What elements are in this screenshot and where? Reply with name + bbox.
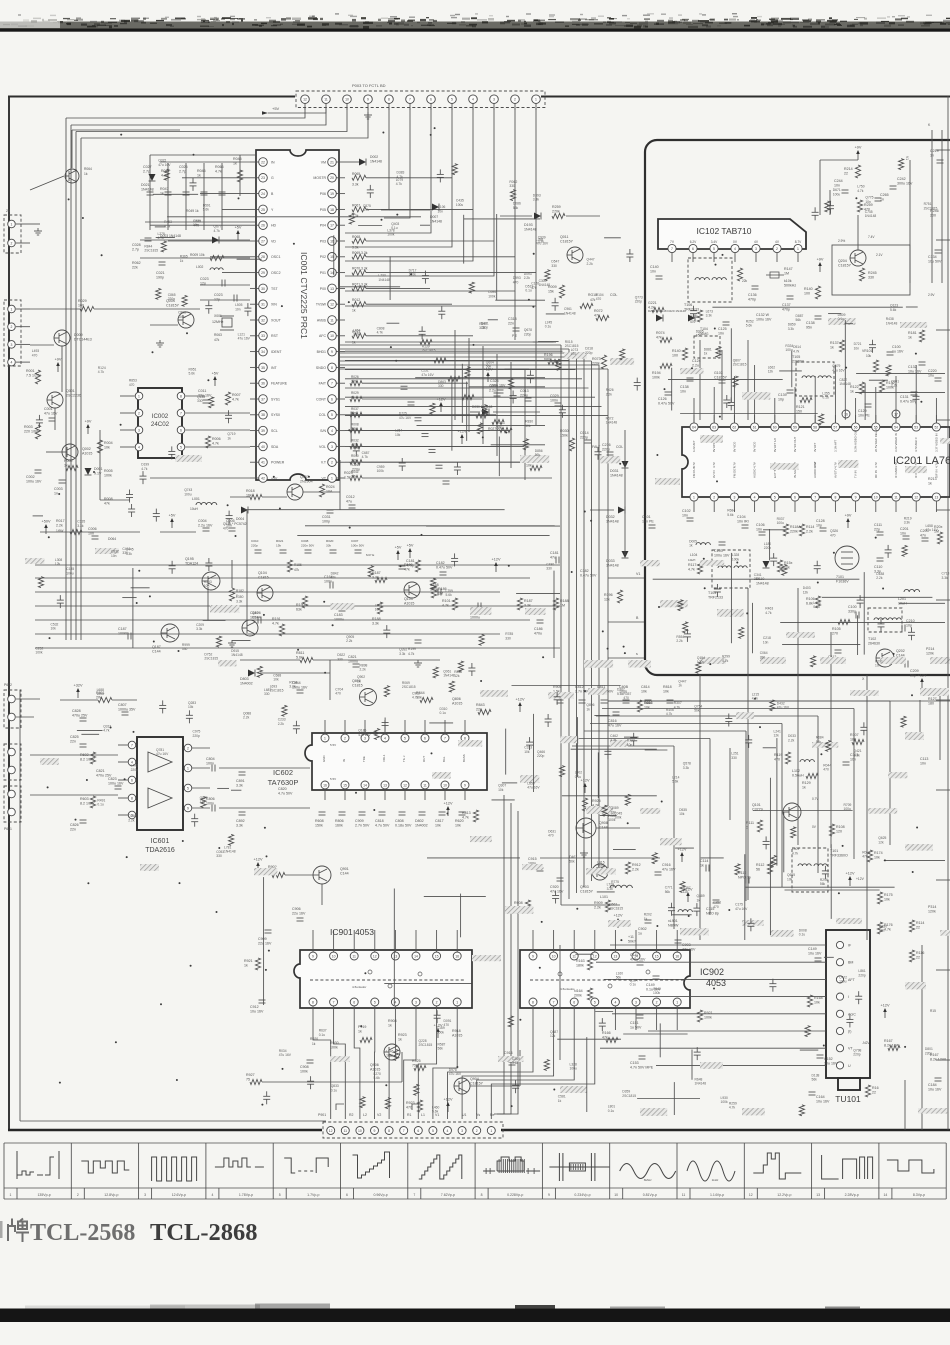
svg-text:C18?: C18? [250,611,259,615]
svg-text:+32V: +32V [74,684,83,688]
svg-text:2.2u 16V: 2.2u 16V [198,524,213,528]
svg-text:220p: 220p [764,546,772,550]
svg-text:7.5 1/2W: 7.5 1/2W [26,374,41,378]
svg-text:470: 470 [596,297,602,301]
svg-text:C906: C906 [292,907,301,911]
svg-text:R163: R163 [576,959,585,963]
svg-text:C139: C139 [778,393,787,397]
svg-text:Q195: Q195 [185,557,194,561]
svg-text:22k: 22k [351,475,357,479]
svg-text:1000u: 1000u [348,660,358,664]
svg-text:10n: 10n [88,532,94,536]
svg-text:MOSTR: MOSTR [313,176,326,180]
svg-text:8: 8 [388,98,390,102]
svg-text:P003 TO FCTL BD: P003 TO FCTL BD [352,83,386,88]
svg-text:3: 3 [331,445,333,449]
svg-text:V1: V1 [905,156,909,160]
svg-text:C026: C026 [179,165,188,169]
svg-text:4: 4 [447,1129,449,1133]
svg-text:12p: 12p [214,298,220,302]
svg-text:6: 6 [424,736,426,740]
svg-text:10u 16V: 10u 16V [808,952,822,956]
svg-text:2.2k: 2.2k [353,333,360,337]
svg-text:100k: 100k [704,1016,712,1020]
svg-text:6: 6 [346,1193,348,1197]
svg-text:C825: C825 [70,735,79,739]
svg-text:4.7V: 4.7V [813,462,817,468]
svg-text:SYS1: SYS1 [271,397,280,401]
svg-text:1N4148: 1N4148 [524,228,537,232]
svg-text:470: 470 [571,352,577,356]
svg-text:+5V: +5V [272,106,280,111]
svg-text:P05: P05 [320,208,326,212]
svg-text:C1815Y: C1815Y [560,240,574,244]
svg-text:C187: C187 [118,627,127,631]
svg-text:1N4148: 1N4148 [606,421,618,425]
svg-text:12.6Vp-p: 12.6Vp-p [172,1193,186,1197]
svg-text:63k: 63k [296,608,302,612]
svg-text:10k: 10k [641,690,647,694]
svg-text:100k: 100k [721,1100,729,1104]
svg-text:3.3k: 3.3k [236,824,243,828]
svg-text:22p: 22p [874,528,880,532]
svg-text:10k: 10k [524,750,530,754]
svg-text:100: 100 [78,304,84,308]
svg-text:47u 16V: 47u 16V [279,1053,292,1057]
svg-text:4.7V: 4.7V [934,462,938,468]
svg-text:1: 1 [797,247,799,251]
svg-text:1/6W: 1/6W [56,529,63,533]
svg-text:P601: P601 [4,827,12,831]
svg-text:470: 470 [513,280,519,284]
svg-text:220p: 220p [520,394,528,398]
svg-text:VOL: VOL [319,445,326,449]
svg-text:NB9W: NB9W [668,924,679,928]
svg-text:R064: R064 [84,167,92,171]
svg-text:4: 4 [472,98,474,102]
svg-text:7: 7 [413,1193,415,1197]
svg-text:3.3k: 3.3k [706,314,713,318]
svg-text:9: 9 [464,783,466,787]
svg-text:Q204: Q204 [838,259,847,263]
svg-text:C182: C182 [436,561,445,565]
svg-text:R175: R175 [884,893,893,897]
svg-text:57: 57 [834,425,838,429]
svg-text:12k: 12k [768,370,774,374]
svg-text:2: 2 [344,736,346,740]
svg-text:1: 1 [535,98,537,102]
svg-text:C002: C002 [26,475,35,479]
svg-text:FEATURE: FEATURE [271,382,288,386]
svg-text:0.228Vp-p: 0.228Vp-p [507,1193,523,1197]
svg-text:4: 4 [331,429,333,433]
svg-text:TRF2133: TRF2133 [708,596,723,600]
svg-text:C821: C821 [96,769,105,773]
svg-text:1N4148: 1N4148 [224,850,236,854]
svg-text:R069 3.3k: R069 3.3k [352,251,368,255]
svg-text:5: 5 [451,98,453,102]
svg-text:1kHz: 1kHz [712,1178,719,1182]
svg-text:1N4148: 1N4148 [378,278,390,282]
svg-text:10p: 10p [816,524,822,528]
svg-text:C001: C001 [44,407,53,411]
svg-text:2.2k: 2.2k [606,392,613,396]
svg-text:24C02: 24C02 [151,421,170,428]
svg-text:C826: C826 [70,823,79,827]
svg-text:12: 12 [914,495,918,499]
svg-text:1: 1 [10,1193,12,1197]
svg-text:4.7k: 4.7k [442,604,449,608]
svg-text:100n: 100n [324,580,332,584]
svg-text:R259: R259 [552,205,561,209]
svg-text:330: 330 [182,647,188,651]
svg-text:11: 11 [682,1193,686,1197]
svg-text:R923: R923 [398,1033,407,1037]
svg-text:R245: R245 [868,271,877,275]
svg-text:FALT: FALT [592,445,601,449]
svg-text:10p: 10p [906,624,912,628]
svg-text:10A: 10A [326,490,333,494]
svg-text:13: 13 [935,495,939,499]
svg-text:P E: P E [512,334,517,338]
svg-text:IC002: IC002 [152,413,169,420]
svg-text:5: 5 [279,1193,281,1197]
svg-text:12: 12 [373,954,377,958]
svg-text:8: 8 [312,1000,314,1004]
svg-text:10k: 10k [526,464,532,468]
svg-text:100k: 100k [387,233,395,237]
svg-text:C220: C220 [928,369,937,373]
svg-text:0.1u: 0.1u [319,1033,326,1037]
svg-text:+9V: +9V [855,146,862,150]
svg-text:4.7V: 4.7V [732,462,736,468]
svg-text:C804: C804 [206,757,215,761]
svg-text:10k: 10k [273,678,279,682]
svg-text:R114: R114 [916,921,924,925]
svg-text:1M: 1M [560,604,565,608]
svg-text:6.2V AFT: 6.2V AFT [692,440,696,452]
svg-text:47u: 47u [346,500,352,504]
svg-text:A1015: A1015 [82,452,92,456]
svg-text:2.9%: 2.9% [838,239,845,243]
svg-text:22u 16V: 22u 16V [292,912,306,916]
svg-text:2SC2236: 2SC2236 [66,394,81,398]
svg-text:C114: C114 [700,859,708,863]
svg-text:9V VCO: 9V VCO [753,441,757,452]
svg-text:R918: R918 [452,1029,461,1033]
svg-text:10u 16V: 10u 16V [816,1100,830,1104]
svg-text:10: 10 [443,783,447,787]
svg-text:1k: 1k [233,162,237,166]
svg-text:9.2% VIDEO OUT: 9.2% VIDEO OUT [854,429,858,452]
svg-text:25: 25 [261,208,265,212]
svg-text:D802: D802 [415,819,424,823]
svg-text:R020: R020 [326,539,334,543]
svg-text:C012: C012 [346,495,355,499]
svg-text:14: 14 [414,954,418,958]
svg-text:RF IN: RF IN [874,470,878,478]
svg-text:15: 15 [343,783,347,787]
svg-text:100n 50V: 100n 50V [351,544,365,548]
svg-text:TRE: TRE [362,756,366,762]
svg-text:10k: 10k [787,877,793,881]
svg-text:7: 7 [333,1000,335,1004]
svg-text:COL: COL [616,445,623,449]
svg-text:62: 62 [733,425,737,429]
svg-text:100u: 100u [184,492,192,496]
svg-text:C131: C131 [900,395,909,399]
svg-text:D001: D001 [94,467,103,471]
svg-text:VOL1: VOL1 [382,754,386,762]
svg-text:236560: 236560 [792,360,804,364]
svg-text:C823: C823 [108,777,117,781]
svg-text:10k: 10k [455,824,461,828]
svg-text:R188: R188 [372,617,381,621]
svg-text:R921: R921 [244,959,253,963]
svg-text:2.7p: 2.7p [143,170,150,174]
svg-text:3.3k: 3.3k [352,246,359,250]
svg-text:17: 17 [330,224,334,228]
svg-text:12k: 12k [331,576,337,580]
svg-text:POWER: POWER [271,461,285,465]
svg-text:+12V: +12V [444,802,453,806]
svg-text:1N4148: 1N4148 [865,214,877,218]
svg-text:22k: 22k [742,279,748,283]
svg-text:2.2k: 2.2k [594,906,601,910]
svg-text:R1: R1 [407,1113,412,1117]
svg-text:220p: 220p [858,973,866,977]
svg-text:10n: 10n [680,390,686,394]
svg-text:Q104: Q104 [258,571,267,575]
svg-text:18: 18 [330,208,334,212]
svg-text:0.18u 50V: 0.18u 50V [395,824,412,828]
svg-text:8.2k 12V0: 8.2k 12V0 [930,1058,946,1062]
svg-text:470: 470 [713,905,719,909]
svg-text:6.8k: 6.8k [806,602,813,606]
svg-text:4-5unledor: 4-5unledor [352,985,366,989]
svg-text:D031: D031 [610,469,619,473]
svg-text:U1: U1 [462,1113,467,1117]
svg-text:0.1u: 0.1u [331,1088,338,1092]
svg-text:R068: R068 [352,235,360,239]
svg-text:IC601: IC601 [151,838,170,845]
svg-text:D803: D803 [240,677,249,681]
svg-text:R009 10k: R009 10k [190,253,205,257]
svg-text:Q908: Q908 [599,821,608,825]
svg-text:330: 330 [505,636,511,640]
svg-text:8: 8 [388,1129,390,1133]
svg-text:P919: P919 [358,1025,366,1029]
svg-text:4.7k: 4.7k [688,568,695,572]
svg-text:R2: R2 [349,1113,354,1117]
svg-text:0.1u: 0.1u [822,396,829,400]
svg-text:10: 10 [332,954,336,958]
svg-text:2.7p: 2.7p [179,170,186,174]
svg-text:D021: D021 [141,183,150,187]
svg-text:26: 26 [261,224,265,228]
svg-text:100u: 100u [570,1067,578,1071]
svg-text:C137: C137 [782,303,791,307]
svg-text:4.7k: 4.7k [765,611,772,615]
svg-text:R024: R024 [326,485,335,489]
svg-text:C151: C151 [630,1021,639,1025]
svg-text:100k: 100k [35,651,43,655]
svg-text:+5V: +5V [395,546,402,550]
svg-text:+12V: +12V [581,779,590,783]
svg-text:330: 330 [551,264,557,268]
svg-text:C820: C820 [278,787,287,791]
svg-text:11: 11 [423,783,427,787]
svg-text:470: 470 [548,834,554,838]
svg-text:P06: P06 [320,192,326,196]
svg-text:2.2u: 2.2u [489,389,496,393]
svg-text:1k: 1k [197,174,201,178]
svg-text:3V AFT: 3V AFT [813,442,817,452]
svg-text:1k: 1k [802,786,806,790]
svg-text:TV IN: TV IN [854,470,858,478]
svg-text:1N4148: 1N4148 [141,188,154,192]
svg-text:R029: R029 [351,391,359,395]
svg-text:54: 54 [894,425,898,429]
svg-text:3.3k: 3.3k [854,753,861,757]
svg-text:D009: D009 [74,333,83,337]
svg-text:C908: C908 [300,1065,309,1069]
svg-text:4.7k: 4.7k [792,851,799,855]
svg-text:4: 4 [614,1000,616,1004]
svg-text:100k: 100k [653,991,661,995]
svg-text:TCL-2868: TCL-2868 [150,1219,258,1246]
svg-text:4.7k: 4.7k [462,816,469,820]
svg-text:0.1u: 0.1u [525,289,532,293]
svg-text:1N4002: 1N4002 [240,682,253,686]
svg-text:56k: 56k [486,365,492,369]
svg-text:C828: C828 [72,709,81,713]
svg-text:C138: C138 [806,321,815,325]
svg-text:1k: 1k [227,436,231,440]
svg-text:AGC: AGC [848,1012,856,1016]
svg-text:6MHz: 6MHz [644,1178,652,1182]
svg-text:100u: 100u [97,692,105,696]
svg-text:R073: R073 [592,357,601,361]
svg-text:200k: 200k [574,994,582,998]
svg-text:4.7k: 4.7k [214,229,221,233]
svg-text:4.7k: 4.7k [103,729,110,733]
svg-text:6: 6 [573,1000,575,1004]
svg-text:7: 7 [403,1129,405,1133]
svg-text:12: 12 [593,954,597,958]
svg-text:C244: C244 [834,179,843,183]
svg-text:10: 10 [614,1193,618,1197]
svg-text:13: 13 [614,954,618,958]
svg-text:1u: 1u [638,932,642,936]
svg-text:16: 16 [675,954,679,958]
svg-text:100k: 100k [597,865,605,869]
svg-text:TRF3360O: TRF3360O [830,854,848,858]
svg-text:47u 16V: 47u 16V [536,242,549,246]
svg-text:3: 3 [733,495,735,499]
svg-text:1k: 1k [160,192,164,196]
svg-text:5: 5 [594,1000,596,1004]
svg-text:3.3k: 3.3k [399,652,406,656]
svg-text:IC901 4053: IC901 4053 [330,927,374,937]
svg-text:1N4148: 1N4148 [443,674,455,678]
svg-text:75: 75 [246,1078,250,1082]
svg-text:270k: 270k [552,210,560,214]
svg-text:100k: 100k [104,474,112,478]
svg-text:47u 16V: 47u 16V [777,706,790,710]
svg-text:220n 50V: 220n 50V [301,544,315,548]
svg-text:P02: P02 [320,255,326,259]
svg-text:5: 5 [374,1000,376,1004]
svg-text:47u 16V: 47u 16V [926,528,939,532]
svg-text:2.7n 50V: 2.7n 50V [575,690,590,694]
svg-text:6: 6 [417,1129,419,1133]
svg-text:SNDO: SNDO [316,366,326,370]
svg-text:1: 1 [456,1000,458,1004]
svg-text:P04: P04 [320,224,326,228]
svg-text:2SC1815: 2SC1815 [609,907,623,911]
svg-text:1000u: 1000u [334,618,344,622]
svg-text:7: 7 [553,1000,555,1004]
svg-text:2: 2 [776,247,778,251]
svg-text:IN: IN [271,160,275,164]
svg-text:C003: C003 [54,487,63,491]
svg-text:6: 6 [692,247,694,251]
svg-text:2.7k: 2.7k [351,380,357,384]
svg-text:1.5k: 1.5k [344,476,351,480]
svg-text:R925: R925 [592,799,601,803]
svg-text:C132: C132 [908,365,917,369]
svg-text:COL: COL [319,413,326,417]
svg-text:L101: L101 [600,895,608,899]
svg-text:R112: R112 [756,863,764,867]
svg-text:8: 8 [532,1000,534,1004]
svg-text:TA7630P: TA7630P [268,778,299,787]
svg-text:1N4148: 1N4148 [539,283,551,287]
svg-text:C147: C147 [630,953,639,957]
svg-text:-N2V: -N2V [862,1041,870,1045]
svg-text:0.1u: 0.1u [575,775,582,779]
svg-text:56: 56 [756,868,760,872]
svg-text:C909: C909 [355,819,364,823]
svg-text:D002: D002 [370,155,378,159]
svg-text:1: 1 [11,307,13,311]
svg-text:120k: 120k [926,652,934,656]
svg-text:0.1u: 0.1u [813,605,820,609]
svg-text:+12V: +12V [614,914,623,918]
svg-text:47u 16V: 47u 16V [662,868,676,872]
svg-text:10n: 10n [650,270,656,274]
svg-text:1n: 1n [54,492,58,496]
svg-text:2: 2 [656,1000,658,1004]
svg-text:270: 270 [832,632,838,636]
svg-text:100u: 100u [456,203,464,207]
svg-text:22: 22 [916,926,920,930]
svg-text:100k: 100k [300,1070,308,1074]
svg-text:100u 16V: 100u 16V [756,318,772,322]
svg-text:1: 1 [324,736,326,740]
svg-text:4: 4 [138,445,140,449]
svg-text:R196: R196 [544,353,553,357]
svg-text:100n: 100n [250,616,258,620]
svg-text:2.2k: 2.2k [891,384,898,388]
svg-text:P03: P03 [320,239,326,243]
svg-text:R012: R012 [352,298,360,302]
svg-text:3.3k: 3.3k [788,327,795,331]
svg-text:10uH: 10uH [688,558,695,562]
svg-text:8: 8 [464,736,466,740]
svg-text:C818: C818 [375,819,384,823]
